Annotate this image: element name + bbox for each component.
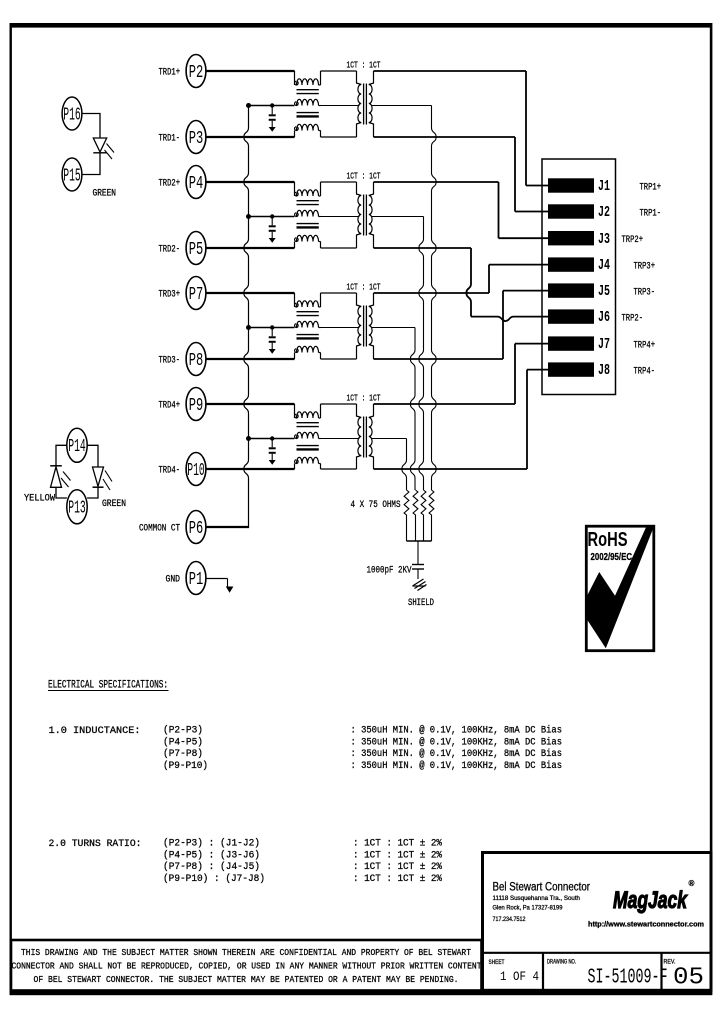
svg-text:1000pF 2KV: 1000pF 2KV <box>367 565 412 576</box>
svg-text:P2: P2 <box>189 63 204 83</box>
svg-text:J6: J6 <box>598 310 610 326</box>
resistor network 4 X 75 OHMS <box>404 490 434 541</box>
svg-text:11118 Susquehanna Tra., South: 11118 Susquehanna Tra., South <box>493 896 581 902</box>
LED D2 YELLOW <box>50 445 70 498</box>
wire <box>206 247 295 249</box>
wire transformer to J6 <box>374 247 472 249</box>
svg-text:: 1CT : 1CT ± 2%: : 1CT : 1CT ± 2% <box>353 838 443 850</box>
wire choke to transformer (top/bottom) <box>321 403 357 405</box>
common-mode choke L3 <box>295 293 321 359</box>
wire <box>206 468 295 470</box>
wire <box>206 181 295 183</box>
svg-text:: 1CT : 1CT ± 2%: : 1CT : 1CT ± 2% <box>353 873 443 885</box>
RoHS logo <box>586 526 654 651</box>
svg-text:YELLOW: YELLOW <box>24 494 55 505</box>
svg-text:P1: P1 <box>189 570 204 590</box>
pin J1 <box>548 178 594 192</box>
wire transformer T3 center tap to resistor <box>372 327 415 329</box>
pin P8 <box>186 343 206 376</box>
pin J7 <box>548 336 594 350</box>
wire transformer to J5 <box>374 358 504 360</box>
wire transformer to J3 <box>374 181 499 183</box>
shield ground <box>413 579 427 591</box>
wire COMMON CT bus <box>244 106 249 528</box>
company Bel Stewart Connector <box>493 882 591 924</box>
wire transformer T1 center tap to resistor <box>372 105 432 107</box>
sheet field <box>489 960 540 984</box>
svg-text:(P7-P8): (P7-P8) <box>163 748 203 760</box>
svg-text:1CT : 1CT: 1CT : 1CT <box>347 394 381 404</box>
wire choke to transformer (top/bottom) <box>321 70 357 72</box>
svg-text:TRP1-: TRP1- <box>640 208 662 219</box>
svg-text:TRD1-: TRD1- <box>159 134 181 145</box>
svg-text:J7: J7 <box>598 337 610 353</box>
svg-text:717.234.7512: 717.234.7512 <box>493 917 527 923</box>
common-mode choke L4 <box>295 404 321 469</box>
wire transformer T2 center tap to resistor <box>372 216 424 218</box>
pin P4 <box>186 166 206 199</box>
svg-text:2.0 TURNS RATIO:: 2.0 TURNS RATIO: <box>49 838 142 850</box>
wire <box>206 292 295 294</box>
svg-text:P13: P13 <box>68 499 86 519</box>
junction <box>246 325 251 330</box>
svg-text:SHIELD: SHIELD <box>408 598 434 609</box>
common-mode choke L1 <box>295 71 321 137</box>
capacitor C1 <box>269 103 276 132</box>
wire transformer to J4 <box>374 292 490 294</box>
svg-text:TRD2-: TRD2- <box>159 245 181 256</box>
svg-text:THIS DRAWING AND THE SUBJECT M: THIS DRAWING AND THE SUBJECT MATTER SHOW… <box>21 947 471 958</box>
pin J8 <box>548 362 594 376</box>
ground (P1) <box>206 579 234 593</box>
svg-text:(P7-P8) : (J4-J5): (P7-P8) : (J4-J5) <box>163 861 260 873</box>
svg-text:P7: P7 <box>189 285 204 305</box>
svg-text:TRP4-: TRP4- <box>634 366 656 377</box>
svg-text:(P2-P3): (P2-P3) <box>163 724 203 736</box>
svg-text:TRP3-: TRP3- <box>634 287 656 298</box>
wire <box>206 358 295 360</box>
svg-text:J5: J5 <box>598 284 610 300</box>
capacitor C3 <box>269 325 276 354</box>
svg-text:(P9-P10) : (J7-J8): (P9-P10) : (J7-J8) <box>163 873 265 885</box>
common-mode choke L2 <box>295 182 321 248</box>
spec 2.0 TURNS RATIO <box>49 838 443 886</box>
wire choke to transformer (top/bottom) <box>321 292 357 294</box>
svg-text:TRD2+: TRD2+ <box>159 179 181 190</box>
svg-text:http://www.stewartconnector.co: http://www.stewartconnector.com <box>588 920 704 929</box>
pin P10 <box>186 453 206 486</box>
wire choke center tap feed <box>249 438 295 440</box>
wire <box>206 403 295 405</box>
svg-text:P6: P6 <box>189 519 204 539</box>
svg-text:1CT : 1CT: 1CT : 1CT <box>347 172 381 182</box>
svg-text:J1: J1 <box>598 179 610 195</box>
svg-text:P15: P15 <box>63 166 81 186</box>
svg-text:GREEN: GREEN <box>93 189 117 200</box>
wire transformer to J2 <box>374 136 516 138</box>
svg-text:TRD3+: TRD3+ <box>159 290 181 301</box>
svg-text:Glen Rock, Pa 17327-8199: Glen Rock, Pa 17327-8199 <box>493 906 564 912</box>
wire transformer to J7 <box>374 403 516 405</box>
capacitor C4 <box>269 436 276 465</box>
svg-text:: 350uH MIN. @ 0.1V, 100KHz, 8: : 350uH MIN. @ 0.1V, 100KHz, 8mA DC Bias <box>351 748 563 760</box>
confidentiality notice <box>11 940 482 991</box>
svg-text:1CT : 1CT: 1CT : 1CT <box>347 61 381 71</box>
svg-text:ELECTRICAL SPECIFICATIONS:: ELECTRICAL SPECIFICATIONS: <box>48 680 168 692</box>
pin J4 <box>548 257 594 271</box>
wire transformer T4 center tap to resistor <box>372 438 407 440</box>
svg-text:P4: P4 <box>189 174 204 194</box>
svg-text:: 1CT : 1CT ± 2%: : 1CT : 1CT ± 2% <box>353 849 443 861</box>
title block <box>483 853 712 991</box>
transformer T2 <box>321 182 374 248</box>
wire transformer to J1 <box>374 70 527 72</box>
svg-text:1 OF 4: 1 OF 4 <box>500 970 539 984</box>
svg-text:TRD1+: TRD1+ <box>159 68 181 79</box>
pin P15 <box>62 158 82 191</box>
section ELECTRICAL SPECIFICATIONS <box>48 680 169 692</box>
svg-text:TRP3+: TRP3+ <box>634 261 656 272</box>
junction <box>246 103 251 108</box>
logo MagJack <box>613 879 695 914</box>
svg-text:: 350uH MIN. @ 0.1V, 100KHz, 8: : 350uH MIN. @ 0.1V, 100KHz, 8mA DC Bias <box>351 724 563 736</box>
pin P9 <box>186 388 206 421</box>
svg-text:J3: J3 <box>598 232 610 248</box>
transformer T3 <box>321 293 374 359</box>
svg-text:P16: P16 <box>63 105 81 125</box>
svg-text:CONNECTOR AND SHALL NOT BE REP: CONNECTOR AND SHALL NOT BE REPRODUCED, C… <box>12 961 482 972</box>
svg-text:RoHS: RoHS <box>588 528 628 551</box>
svg-text:4 X 75 OHMS: 4 X 75 OHMS <box>351 500 401 511</box>
pin J5 <box>548 283 594 297</box>
svg-text:P10: P10 <box>187 461 205 481</box>
svg-text:COMMON CT: COMMON CT <box>139 524 180 535</box>
svg-text:1.0 INDUCTANCE:: 1.0 INDUCTANCE: <box>49 725 141 737</box>
wire P6 to bus <box>206 526 249 528</box>
svg-text:SI-51009-F: SI-51009-F <box>588 967 668 990</box>
svg-text:TRP2-: TRP2- <box>622 313 644 324</box>
svg-text:GND: GND <box>166 575 181 586</box>
svg-text:(P2-P3) : (J1-J2): (P2-P3) : (J1-J2) <box>163 838 260 850</box>
svg-text:TRD3-: TRD3- <box>159 356 181 367</box>
pin P1 <box>186 562 206 595</box>
svg-text:: 350uH MIN. @ 0.1V, 100KHz, 8: : 350uH MIN. @ 0.1V, 100KHz, 8mA DC Bias <box>351 736 563 748</box>
transformer T1 <box>321 71 374 137</box>
wire <box>206 136 295 138</box>
svg-text:®: ® <box>689 879 695 888</box>
svg-text:GREEN: GREEN <box>102 499 126 510</box>
svg-text:2002/95/EC: 2002/95/EC <box>591 551 633 563</box>
svg-text:Bel Stewart Connector: Bel Stewart Connector <box>493 882 591 894</box>
wire choke center tap feed <box>249 216 295 218</box>
wire <box>206 70 295 72</box>
spec 1.0 INDUCTANCE <box>49 724 563 772</box>
svg-text:J8: J8 <box>598 363 610 379</box>
svg-text:P8: P8 <box>189 351 204 371</box>
svg-text:TRP4+: TRP4+ <box>634 340 656 351</box>
wire choke center tap feed <box>249 105 295 107</box>
pin P7 <box>186 277 206 310</box>
svg-text:: 350uH MIN. @ 0.1V, 100KHz, 8: : 350uH MIN. @ 0.1V, 100KHz, 8mA DC Bias <box>351 760 563 772</box>
svg-text:1CT : 1CT: 1CT : 1CT <box>347 283 381 293</box>
capacitor C2 <box>269 214 276 243</box>
svg-text:OF BEL STEWART CONNECTOR. THE: OF BEL STEWART CONNECTOR. THE SUBJECT MA… <box>34 974 459 985</box>
svg-text:SHEET: SHEET <box>489 960 505 966</box>
wire choke to transformer (top/bottom) <box>321 181 357 183</box>
connector block J1-J8 <box>542 159 616 395</box>
svg-text:P14: P14 <box>68 437 86 457</box>
svg-text:TRP1+: TRP1+ <box>640 182 662 193</box>
pin P5 <box>186 232 206 265</box>
svg-text:P5: P5 <box>189 240 204 260</box>
pin J3 <box>548 231 594 245</box>
drawing no field <box>547 960 668 990</box>
junction <box>246 214 251 219</box>
capacitor C5 1000pF 2KV <box>412 541 424 579</box>
svg-text:MagJack: MagJack <box>613 887 688 914</box>
pin P2 <box>186 55 206 88</box>
svg-text:J4: J4 <box>598 258 610 274</box>
pin J6 <box>548 309 594 323</box>
svg-text:(P9-P10): (P9-P10) <box>163 760 208 772</box>
svg-text:P9: P9 <box>189 396 204 416</box>
svg-text:P3: P3 <box>189 129 204 149</box>
transformer T4 <box>321 404 374 469</box>
svg-text:TRD4-: TRD4- <box>159 466 181 477</box>
LED D1 GREEN <box>82 114 114 175</box>
svg-text:J2: J2 <box>598 205 610 221</box>
rev field <box>664 960 705 992</box>
wire choke center tap feed <box>249 327 295 329</box>
junction <box>246 436 251 441</box>
svg-text:(P4-P5): (P4-P5) <box>163 736 203 748</box>
svg-text:(P4-P5) : (J3-J6): (P4-P5) : (J3-J6) <box>163 849 260 861</box>
svg-text:: 1CT : 1CT ± 2%: : 1CT : 1CT ± 2% <box>353 861 443 873</box>
svg-text:DRAWING NO.: DRAWING NO. <box>547 960 576 966</box>
svg-text:TRP2+: TRP2+ <box>622 235 644 246</box>
pin P14 <box>67 428 87 462</box>
pin P13 <box>67 490 87 524</box>
pin J2 <box>548 204 594 218</box>
pin P16 <box>62 97 82 130</box>
pin P6 <box>186 511 206 544</box>
svg-text:TRD4+: TRD4+ <box>159 401 181 412</box>
LED D3 GREEN <box>87 445 112 498</box>
pin P3 <box>186 121 206 154</box>
wire transformer to J8 <box>374 468 528 470</box>
svg-text:05: 05 <box>673 965 704 992</box>
